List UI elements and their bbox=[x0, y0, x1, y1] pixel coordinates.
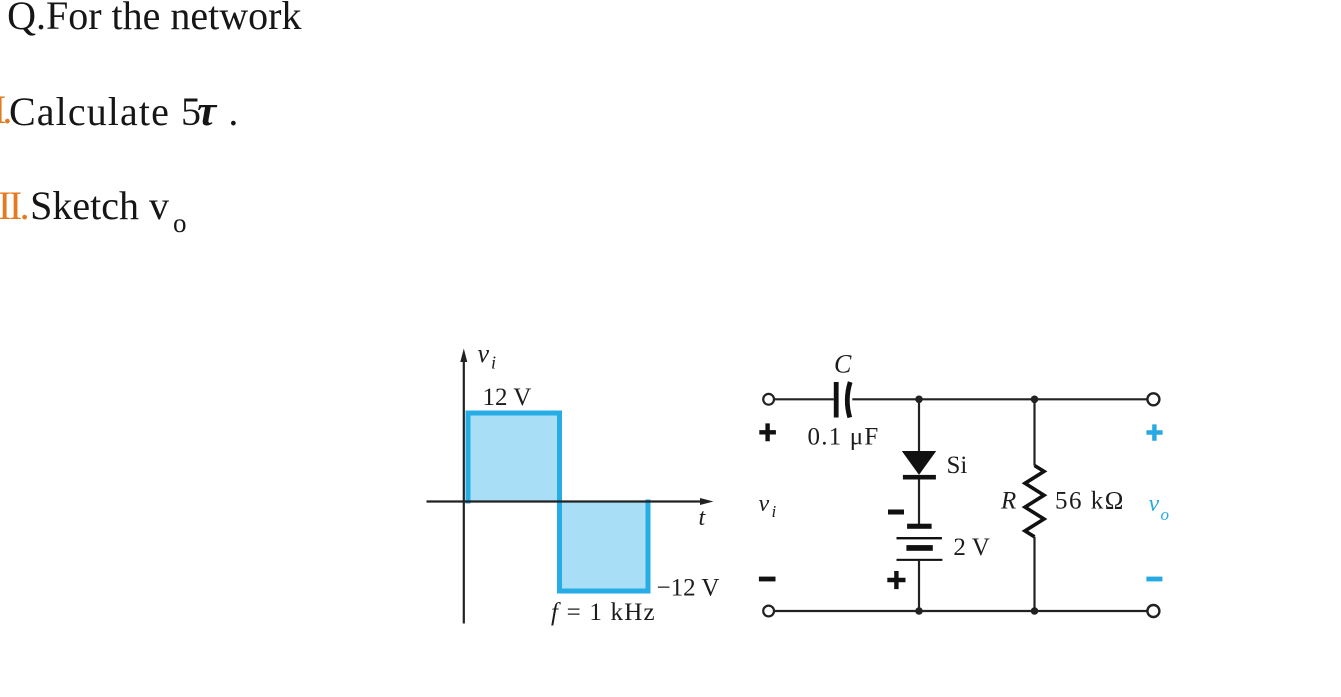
terminal output top bbox=[1147, 393, 1159, 405]
svg-text:C: C bbox=[834, 350, 852, 379]
capacitor C left plate bbox=[834, 382, 839, 418]
terminal input bottom bbox=[763, 606, 774, 617]
t axis bbox=[427, 500, 703, 502]
minus sign vi bottom bbox=[759, 577, 776, 582]
node junction top-resistor bbox=[1031, 396, 1039, 404]
svg-text:v: v bbox=[1149, 491, 1160, 517]
svg-text:R: R bbox=[1000, 488, 1016, 515]
wire diode branch upper bbox=[918, 399, 920, 451]
wire diode to battery bbox=[918, 480, 920, 525]
svg-text:−12 V: −12 V bbox=[657, 575, 720, 602]
heading line II text bbox=[30, 186, 186, 237]
negative pulse fill bbox=[560, 502, 649, 592]
wire resistor branch upper bbox=[1033, 399, 1035, 465]
waveform outline bbox=[468, 413, 648, 591]
wire top rail bbox=[774, 398, 834, 400]
minus sign battery bbox=[888, 510, 904, 515]
battery 2V plate 3 (short) bbox=[906, 545, 932, 551]
wire battery to bottom rail bbox=[918, 561, 920, 611]
svg-text:0.1 μF: 0.1 μF bbox=[808, 424, 880, 451]
wire bottom rail bbox=[774, 610, 1147, 612]
svg-text:v: v bbox=[478, 339, 490, 368]
plus sign vi top bbox=[759, 423, 776, 441]
heading line II marker bbox=[0, 186, 27, 226]
diode Si anode triangle bbox=[902, 451, 936, 475]
heading line Q bbox=[7, 0, 301, 36]
plus sign battery bbox=[887, 571, 905, 589]
svg-text:56 kΩ: 56 kΩ bbox=[1055, 488, 1125, 515]
v axis bbox=[463, 360, 465, 624]
battery 2V plate 4 (long) bbox=[897, 559, 943, 561]
node junction top-diode bbox=[915, 396, 923, 404]
v axis arrowhead bbox=[460, 349, 467, 363]
t axis arrowhead bbox=[700, 498, 714, 505]
svg-text:Si: Si bbox=[947, 452, 968, 479]
svg-text:t: t bbox=[699, 505, 707, 531]
heading line I marker bbox=[0, 90, 8, 130]
svg-text:f = 1 kHz: f = 1 kHz bbox=[551, 599, 656, 626]
node junction bottom-diode bbox=[915, 607, 923, 615]
svg-text:o: o bbox=[1161, 505, 1170, 524]
svg-text:2 V: 2 V bbox=[953, 534, 989, 561]
svg-text:12 V: 12 V bbox=[483, 384, 532, 411]
battery 2V plate 1 (short) bbox=[907, 524, 932, 529]
svg-text:v: v bbox=[759, 491, 770, 517]
resistor R zigzag body bbox=[1025, 466, 1044, 537]
heading line I text bbox=[9, 90, 240, 133]
positive pulse fill bbox=[468, 413, 560, 502]
plus sign vo (cyan) bbox=[1146, 424, 1162, 440]
battery 2V plate 2 (long) bbox=[897, 537, 942, 539]
diode Si cathode bar bbox=[903, 475, 936, 480]
svg-text:i: i bbox=[772, 502, 777, 521]
terminal output bottom bbox=[1147, 605, 1159, 617]
minus sign vo (cyan) bbox=[1146, 577, 1162, 582]
terminal input top bbox=[763, 394, 774, 405]
svg-text:i: i bbox=[491, 352, 496, 372]
capacitor C right plate (curved) bbox=[847, 382, 850, 418]
wire resistor branch lower bbox=[1033, 537, 1035, 611]
node junction bottom-resistor bbox=[1031, 607, 1039, 615]
